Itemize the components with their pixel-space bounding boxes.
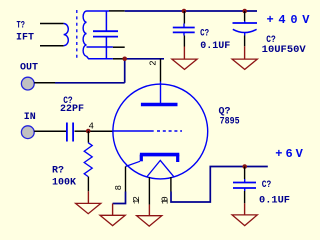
tube plate lead (160, 82, 162, 105)
svg-text:IN: IN (24, 112, 36, 123)
svg-text:C?: C? (262, 180, 272, 191)
tube heater pin 12 (148, 177, 150, 204)
tube U1 envelope circle (113, 84, 208, 179)
node junction dot +6V rail (242, 164, 247, 169)
svg-text:12: 12 (132, 196, 142, 204)
node junction dot top rail / C3 (242, 9, 247, 14)
node 4 junction dot (86, 129, 91, 134)
wire pin 10 to +6V rail (171, 167, 268, 203)
capacitor C1 labels (60, 96, 84, 115)
svg-text:22PF: 22PF (60, 104, 84, 115)
transformer T1 secondary top pin (109, 10, 125, 12)
ground under C2 (172, 47, 197, 70)
tube cathode bar (140, 153, 179, 157)
capacitor C4 0.1UF (233, 179, 256, 191)
svg-text:7895: 7895 (220, 116, 240, 127)
capacitor C4 bottom pin (244, 191, 246, 203)
svg-text:IFT: IFT (16, 33, 34, 44)
ground under C3 (232, 46, 257, 69)
svg-text:R?: R? (52, 166, 64, 177)
wire secondary node to plate pin (125, 58, 164, 60)
tube grid line (113, 130, 154, 132)
capacitor C2 0.1UF (173, 24, 195, 36)
transformer T1 secondary top lead (87, 10, 110, 12)
node junction dot secondary/OUT (122, 57, 127, 62)
transformer T1 primary top pin (40, 23, 64, 25)
svg-text:0.1UF: 0.1UF (259, 196, 290, 207)
resistor R1 labels (52, 166, 76, 189)
ground under pin 8 (100, 204, 125, 226)
svg-text:+6V: +6V (275, 147, 303, 161)
transformer T1 core (76, 10, 78, 59)
wire OUT vertical to secondary node (124, 59, 126, 83)
capacitor C3 10UF50V top pin (244, 11, 246, 21)
svg-text:0.1UF: 0.1UF (200, 41, 230, 52)
svg-text:8: 8 (114, 185, 124, 190)
transformer T1 secondary bottom lead (87, 56, 113, 59)
wire top rail (125, 10, 257, 12)
svg-text:10: 10 (161, 196, 171, 204)
tube plate pin 2 (160, 59, 162, 82)
tube cathode pin 8 (125, 167, 127, 192)
port IN circle (21, 126, 34, 139)
ground under C4 (232, 203, 257, 225)
resistor R1 bottom pin (87, 177, 89, 192)
tube cathode left hook (140, 155, 143, 162)
svg-text:100K: 100K (52, 178, 76, 189)
svg-text:OUT: OUT (20, 63, 38, 74)
tube grid dashes (157, 130, 182, 132)
svg-text:T?: T? (17, 21, 25, 32)
capacitor C4 labels (259, 180, 290, 207)
tube cathode right hook (176, 155, 179, 162)
transformer T1 label (16, 21, 34, 44)
svg-text:4: 4 (89, 121, 94, 131)
transformer T1 secondary tap pin (113, 46, 125, 48)
capacitor across secondary (93, 11, 118, 59)
transformer T1 primary winding (64, 24, 69, 46)
svg-text:C?: C? (200, 29, 209, 40)
capacitor C3 labels (262, 35, 306, 56)
capacitor C2 bottom pin (183, 36, 185, 47)
capacitor C1 right pin to node 4 (75, 130, 89, 132)
svg-text:10UF50V: 10UF50V (262, 45, 306, 56)
capacitor C3 10UF50V polarized (233, 21, 258, 36)
tube heater pin 10 (170, 177, 172, 192)
tube U1 labels (219, 107, 240, 128)
capacitor C4 0.1UF top pin (244, 167, 246, 180)
tube plate bar (141, 103, 178, 107)
ground under R1 (76, 191, 101, 213)
capacitor C2 labels (200, 29, 230, 52)
node junction dot top rail / C2 (182, 9, 187, 14)
capacitor C1 22PF (67, 123, 73, 142)
tube grid pin (88, 130, 113, 132)
port OUT pin (34, 82, 55, 84)
port IN pin / wire to C1 (34, 130, 67, 132)
tube heater (147, 160, 174, 177)
capacitor C2 0.1UF top pin (183, 11, 185, 24)
transformer T1 secondary tap lead (87, 46, 113, 48)
resistor R1 top pin (87, 131, 89, 143)
port OUT circle (21, 77, 34, 90)
tube cathode lead diagonal (126, 161, 141, 166)
wire pin 8 to ground (113, 192, 126, 204)
transformer T1 primary bottom pin (40, 45, 64, 47)
transformer T1 secondary winding (83, 11, 86, 56)
ground under pin 12 (137, 205, 162, 227)
capacitor C3 bottom pin (244, 36, 246, 47)
svg-text:2: 2 (148, 60, 158, 65)
resistor R1 zigzag (84, 143, 92, 177)
wire OUT horizontal (55, 82, 125, 84)
transformer T1 secondary bottom pin (113, 58, 125, 60)
